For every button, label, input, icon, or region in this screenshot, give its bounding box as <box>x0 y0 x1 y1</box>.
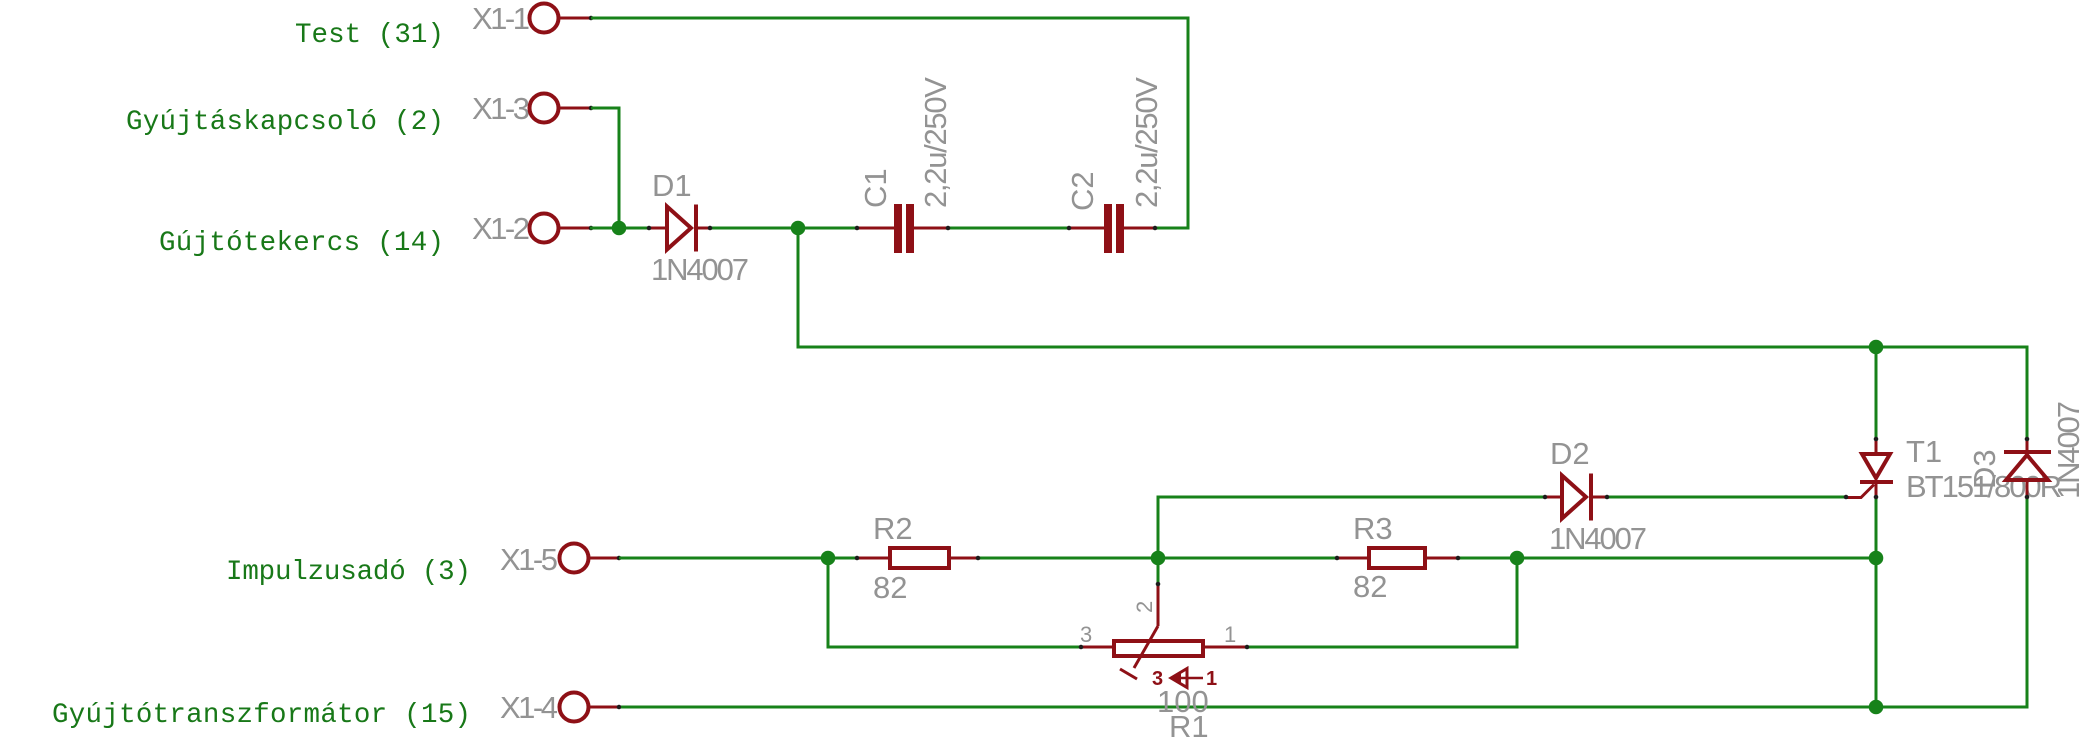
diode D3 <box>1967 401 2086 499</box>
R2 pin connection points <box>855 556 860 561</box>
junction node right of R3 <box>1510 551 1525 566</box>
svg-text:1N4007: 1N4007 <box>651 252 749 287</box>
diode D2 <box>1543 436 1647 556</box>
wire T1 cathode down through row 558 to bottom row <box>1875 497 1878 707</box>
C2 right pin <box>1124 227 1155 230</box>
C1 plates <box>894 204 902 253</box>
R2 body <box>890 548 949 568</box>
C2 left pin <box>1070 227 1104 230</box>
wire T1 anode branch <box>1875 347 1878 439</box>
svg-text:2: 2 <box>1132 601 1157 613</box>
junction node T1 row 558 <box>1869 551 1884 566</box>
wire pot pin2 stub <box>1157 558 1160 584</box>
capacitor C1 <box>855 77 953 253</box>
svg-text:1N4007: 1N4007 <box>1549 521 1647 556</box>
thyristor T1 <box>1844 434 2061 504</box>
R3 pin connection points <box>1335 556 1340 561</box>
junction node pot pin2 branch <box>1151 551 1166 566</box>
D1 cathode bar <box>694 205 698 252</box>
R2 right pin <box>949 557 978 560</box>
R1 pin 3 <box>1082 646 1114 649</box>
R1 pin 2 wiper lead <box>1157 585 1160 626</box>
C1 left pin <box>858 227 894 230</box>
svg-text:2,2u/250V: 2,2u/250V <box>918 77 953 208</box>
junction node T1 top <box>1869 340 1884 355</box>
D2 triangle <box>1562 476 1586 519</box>
junction node X1-5 row left <box>821 551 836 566</box>
T1 cathode bar <box>1860 480 1893 484</box>
svg-text:82: 82 <box>1353 569 1387 604</box>
C2 plates <box>1104 204 1112 253</box>
connector pin X1-2 <box>472 211 593 246</box>
R3 left pin <box>1338 557 1369 560</box>
svg-text:X1-2: X1-2 <box>472 211 530 246</box>
svg-text:Impulzusadó (3): Impulzusadó (3) <box>226 557 471 588</box>
T1 pin connection points <box>1874 437 1879 442</box>
svg-text:Gújtótekercs (14): Gújtótekercs (14) <box>159 228 444 259</box>
wire X1-1 top row and right drop to C2 <box>591 18 1188 228</box>
wire D2 out to T1 gate <box>1608 496 1845 499</box>
connector pin X1-3 <box>472 91 593 126</box>
wire junction left drop to pot pin3 <box>828 558 1081 647</box>
R1 body <box>1114 641 1203 656</box>
C2 pin connection points <box>1067 226 1072 231</box>
wire X1-3 to junction on X1-2 row <box>591 108 619 228</box>
T1 gate lead <box>1847 485 1874 498</box>
R3 body <box>1369 548 1425 568</box>
D1 anode pin <box>649 227 666 230</box>
D3 anode pin <box>2026 482 2029 496</box>
svg-text:2,2u/250V: 2,2u/250V <box>1129 77 1164 208</box>
svg-text:X1-1: X1-1 <box>472 1 530 36</box>
capacitor C2 <box>1065 77 1164 253</box>
svg-text:T1: T1 <box>1906 434 1942 469</box>
svg-text:1: 1 <box>1206 668 1217 690</box>
svg-text:C2: C2 <box>1065 171 1100 211</box>
D3 pin connection points <box>2025 437 2030 442</box>
R1 wiper end tick <box>1120 669 1137 679</box>
resistor R2 <box>855 511 981 605</box>
svg-text:Test (31): Test (31) <box>295 20 444 51</box>
svg-text:R3: R3 <box>1353 511 1393 546</box>
svg-text:X1-4: X1-4 <box>500 690 558 725</box>
wire D1 to C1 <box>710 227 858 230</box>
C1 pin connection points <box>855 226 860 231</box>
connector pin X1-5 <box>500 542 621 577</box>
wire X1-5 to R2 <box>619 557 857 560</box>
R1 wiper diagonal <box>1134 626 1158 668</box>
svg-text:D1: D1 <box>652 168 692 203</box>
T1 cathode pin <box>1875 484 1878 496</box>
wire pot pin1 to junction under R3 <box>1247 558 1517 647</box>
wire R3 to T1 branch <box>1458 557 1876 560</box>
wire R2 to R3 <box>979 557 1337 560</box>
R3 right pin <box>1425 557 1457 560</box>
connector pin X1-1 <box>472 1 593 36</box>
svg-text:1N4007: 1N4007 <box>2051 401 2086 499</box>
svg-text:3: 3 <box>1080 622 1092 647</box>
svg-text:D2: D2 <box>1550 436 1590 471</box>
junction node X1-3/X1-2 <box>612 221 627 236</box>
T1 anode pin <box>1875 440 1878 453</box>
D2 pin connection points <box>1543 495 1548 500</box>
svg-text:D3: D3 <box>1967 449 2002 489</box>
svg-text:X1-3: X1-3 <box>472 91 530 126</box>
wire node at 1158 up to D2 row <box>1158 497 1545 558</box>
D2 anode pin <box>1546 496 1561 499</box>
D2 cathode bar <box>1589 474 1593 521</box>
D3 triangle <box>2006 455 2048 480</box>
svg-text:X1-5: X1-5 <box>500 542 558 577</box>
junction node below D1 <box>791 221 806 236</box>
R1 pin 1 <box>1203 646 1246 649</box>
svg-text:3: 3 <box>1152 668 1163 690</box>
D3 cathode bar <box>2004 450 2051 454</box>
R2 left pin <box>857 557 890 560</box>
svg-text:R1: R1 <box>1169 709 1209 744</box>
D1 cathode pin <box>696 227 710 230</box>
T1 triangle <box>1862 454 1890 478</box>
junction node T1 bottom <box>1869 700 1884 715</box>
D3 cathode pin <box>2026 439 2029 452</box>
R1 pin connection points <box>1079 645 1084 650</box>
resistor R3 <box>1335 511 1461 604</box>
wire junction below D1 down and long run right to D3 branch <box>798 228 2027 439</box>
svg-text:1: 1 <box>1224 622 1236 647</box>
svg-text:R2: R2 <box>873 511 913 546</box>
D1 pin connection points <box>647 226 652 231</box>
wire D3 bottom to X1-4 row <box>621 497 2027 707</box>
svg-text:C1: C1 <box>858 168 893 208</box>
C1 right pin <box>914 227 948 230</box>
connector pin X1-4 <box>500 690 621 725</box>
diode D1 <box>647 168 749 287</box>
D2 cathode pin <box>1591 496 1606 499</box>
potentiometer R1 <box>1079 582 1250 744</box>
svg-text:Gyújtáskapcsoló (2): Gyújtáskapcsoló (2) <box>126 107 444 138</box>
D1 triangle <box>667 207 691 250</box>
svg-text:Gyújtótranszformátor (15): Gyújtótranszformátor (15) <box>52 700 471 731</box>
wire X1-2 to D1 <box>590 227 649 230</box>
svg-text:82: 82 <box>873 570 907 605</box>
wire C1 to C2 <box>948 227 1070 230</box>
